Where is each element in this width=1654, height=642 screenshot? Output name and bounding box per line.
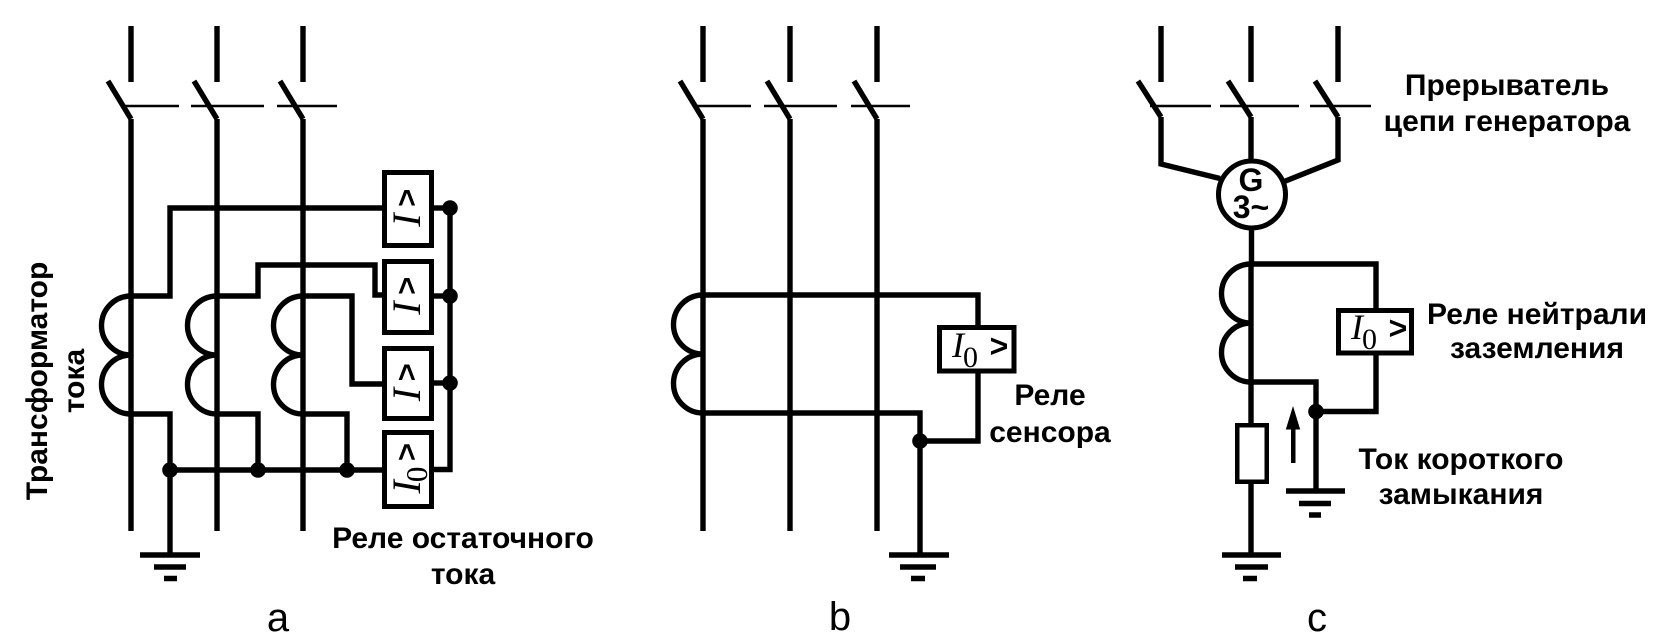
generator G circle	[1219, 161, 1286, 228]
breaker CB-B2 bar	[764, 105, 837, 108]
breaker CB-C3 blade	[1315, 81, 1338, 117]
breaker CB-A1 blade	[108, 81, 131, 119]
breaker CB-B3 top stub	[874, 26, 879, 82]
breaker CB-A1 top stub	[128, 26, 133, 82]
svg-text:Реле нейтрализаземления: Реле нейтрализаземления	[1427, 298, 1647, 365]
wire phase A3 vertical	[300, 119, 305, 531]
relay K2 box	[385, 262, 432, 333]
relay K3 box	[385, 349, 432, 419]
breaker CB-C3 top stub	[1335, 26, 1340, 82]
wire relay K3 output	[434, 380, 450, 385]
wire resistor to ground C1	[1248, 484, 1253, 553]
wire junction to ground C2	[1313, 412, 1318, 491]
ground symbol C1	[1222, 555, 1281, 579]
breaker CB-C2 blade	[1228, 81, 1251, 117]
wire phase A1 vertical	[128, 119, 133, 531]
breaker CB-C2 bar	[1220, 105, 1299, 108]
wire CT-A3 bottom tap	[303, 414, 347, 470]
wire phase B1 vertical	[700, 119, 705, 531]
core balance transformer CT-B coil	[674, 295, 704, 413]
wire CT-A1 top tap to relay K1	[131, 208, 382, 296]
wire CT-B top tap to relay	[703, 295, 978, 325]
current transformer CT-A2	[188, 296, 218, 414]
wire relay bottom to junction	[920, 373, 978, 441]
wire phase B3 vertical	[874, 119, 879, 531]
breaker CB-A3 bar	[277, 105, 337, 108]
relay K1 box	[385, 173, 432, 246]
breaker CB-B3 bar	[851, 105, 910, 108]
svg-text:c: c	[1307, 596, 1327, 640]
junction dot A1	[162, 462, 178, 478]
ground symbol A	[140, 555, 200, 579]
relay KB box	[940, 328, 1015, 372]
wire residual bus to relay K0	[170, 467, 382, 472]
wire generator to neutral CT	[1249, 228, 1254, 264]
junction dot B	[912, 433, 928, 449]
wire CT-A2 top tap to relay K2	[217, 265, 382, 296]
relay K0 box	[385, 433, 432, 507]
wire neutral line through coil	[1248, 264, 1253, 382]
wire relay bottom to junction	[1316, 355, 1376, 412]
neutral transformer CT-C coil	[1222, 264, 1252, 382]
breaker CB-B2 blade	[767, 81, 790, 119]
breaker CB-A1 bar	[123, 105, 179, 108]
breaker CB-C3 bar	[1310, 105, 1371, 108]
svg-text:a: a	[267, 596, 290, 640]
wire ground stem A	[167, 470, 172, 553]
wire CT-B bottom tap	[703, 413, 920, 441]
breaker CB-A3 blade	[280, 81, 303, 119]
breaker CB-B1 top stub	[700, 26, 705, 82]
wire relay K1 output	[434, 205, 450, 210]
breaker CB-C2 top stub	[1248, 26, 1253, 82]
breaker CB-C1 bar	[1150, 105, 1211, 108]
fault current arrow	[1286, 406, 1300, 463]
wire phase C3 to generator	[1283, 117, 1338, 182]
ground symbol C2	[1286, 491, 1345, 515]
junction dot bus K3	[442, 375, 458, 391]
junction dot bus K1	[442, 200, 458, 216]
wire phase C1 to generator	[1161, 117, 1220, 179]
junction dot A3	[339, 462, 355, 478]
relay KC box	[1339, 311, 1412, 354]
breaker CB-A2 top stub	[214, 26, 219, 82]
breaker CB-B1 bar	[696, 105, 751, 108]
wire CT-A3 top tap to relay K3	[303, 296, 382, 384]
breaker CB-A2 bar	[191, 105, 264, 108]
breaker CB-B2 top stub	[787, 26, 792, 82]
breaker CB-B3 blade	[854, 81, 877, 119]
wire CT-A1 bottom tap	[131, 414, 170, 470]
breaker CB-C1 blade	[1138, 81, 1161, 117]
wire relay K2 output	[434, 293, 450, 298]
svg-text:3~: 3~	[1233, 189, 1269, 225]
wire neutral to resistor	[1248, 382, 1253, 423]
breaker CB-B1 blade	[680, 81, 703, 119]
wire phase C2 to generator	[1248, 117, 1253, 163]
svg-text:b: b	[829, 595, 851, 639]
wire phase B2 vertical	[787, 119, 792, 531]
wire phase A2 vertical	[214, 119, 219, 531]
wire CT-C bottom tap	[1251, 382, 1316, 412]
wire CT-C top tap to relay	[1251, 264, 1376, 308]
junction dot bus K2	[442, 288, 458, 304]
junction dot A2	[250, 462, 266, 478]
wire CT-A2 bottom tap	[217, 414, 258, 470]
resistor R neutral	[1237, 425, 1267, 482]
wire relay output bus	[434, 208, 450, 470]
wire ground stem B	[917, 441, 922, 553]
current transformer CT-A1	[102, 296, 131, 414]
breaker CB-C1 top stub	[1158, 26, 1163, 82]
breaker CB-A2 blade	[194, 81, 217, 119]
breaker CB-A3 top stub	[300, 26, 305, 82]
junction dot C	[1308, 404, 1324, 420]
current transformer CT-A3	[274, 296, 304, 414]
ground symbol B	[889, 555, 949, 579]
